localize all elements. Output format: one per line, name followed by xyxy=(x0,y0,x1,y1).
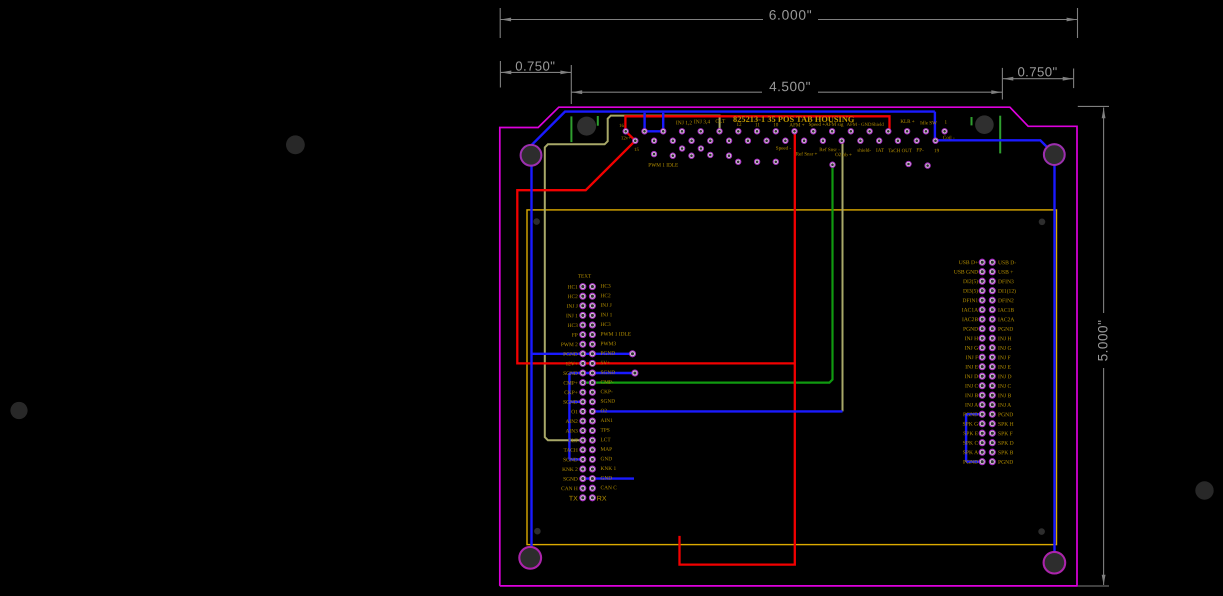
svg-text:INJ 3,4: INJ 3,4 xyxy=(694,119,710,125)
svg-text:SPK A: SPK A xyxy=(963,450,978,456)
svg-text:PWM3: PWM3 xyxy=(600,341,616,347)
svg-text:CAN C: CAN C xyxy=(600,485,617,491)
svg-text:CMP-: CMP- xyxy=(600,380,613,386)
svg-text:DFIN1: DFIN1 xyxy=(962,298,978,304)
svg-text:AIN1: AIN1 xyxy=(600,418,613,424)
svg-text:4.500": 4.500" xyxy=(769,79,811,94)
svg-text:12V+: 12V+ xyxy=(565,361,577,367)
svg-text:PGND: PGND xyxy=(998,460,1013,466)
svg-text:IAC1B: IAC1B xyxy=(998,308,1014,314)
svg-text:CKP+: CKP+ xyxy=(564,390,578,396)
svg-text:MAP: MAP xyxy=(600,447,612,453)
svg-text:LCT: LCT xyxy=(600,437,611,443)
svg-text:AIN3: AIN3 xyxy=(566,429,579,435)
svg-text:TX: TX xyxy=(569,496,578,503)
svg-text:TaCH OUT: TaCH OUT xyxy=(888,148,913,154)
svg-text:PGND: PGND xyxy=(963,412,978,418)
svg-text:KLR +: KLR + xyxy=(900,119,914,125)
svg-text:PGND: PGND xyxy=(600,351,615,357)
svg-text:10: 10 xyxy=(773,122,779,128)
svg-text:HC1: HC1 xyxy=(568,285,578,291)
svg-text:INJ C: INJ C xyxy=(998,384,1011,390)
svg-text:SGND: SGND xyxy=(600,399,615,405)
svg-text:SGND: SGND xyxy=(563,457,578,463)
svg-text:INJ D: INJ D xyxy=(965,374,979,380)
svg-text:DFIN3: DFIN3 xyxy=(998,279,1014,285)
svg-text:INJ G: INJ G xyxy=(965,346,979,352)
svg-text:11: 11 xyxy=(755,122,760,128)
svg-text:SGND: SGND xyxy=(563,400,578,406)
svg-text:PGND: PGND xyxy=(963,460,978,466)
svg-text:INJ E: INJ E xyxy=(998,365,1011,371)
svg-text:INJ 1: INJ 1 xyxy=(600,312,612,318)
svg-text:SPK H: SPK H xyxy=(998,422,1014,428)
svg-text:KNK 1: KNK 1 xyxy=(600,466,616,472)
svg-text:HC2: HC2 xyxy=(568,294,578,300)
svg-text:Coil -: Coil - xyxy=(943,135,955,141)
svg-text:16: 16 xyxy=(619,124,624,129)
svg-text:SGND: SGND xyxy=(600,370,615,376)
svg-text:SPK E: SPK E xyxy=(963,431,979,437)
svg-text:INJ J: INJ J xyxy=(600,303,611,309)
svg-text:SPK G: SPK G xyxy=(962,422,978,428)
svg-text:AFM +: AFM + xyxy=(789,122,804,128)
svg-text:INJ H: INJ H xyxy=(998,336,1012,342)
svg-text:HC2: HC2 xyxy=(600,293,610,299)
svg-text:SPK C: SPK C xyxy=(963,441,979,447)
svg-text:PGND: PGND xyxy=(963,327,978,333)
svg-text:SPK D: SPK D xyxy=(998,441,1014,447)
svg-text:Speed -: Speed - xyxy=(776,146,792,152)
svg-text:INJ A: INJ A xyxy=(965,403,978,409)
svg-text:PWM 1 IDLE: PWM 1 IDLE xyxy=(648,163,678,169)
svg-text:INJ A: INJ A xyxy=(998,403,1011,409)
svg-text:DI3(5): DI3(5) xyxy=(963,288,978,295)
svg-text:USB GND: USB GND xyxy=(954,270,978,276)
svg-text:PGND: PGND xyxy=(998,327,1013,333)
svg-text:INJ C: INJ C xyxy=(965,384,978,390)
svg-text:6.000": 6.000" xyxy=(769,8,813,23)
svg-text:PGND: PGND xyxy=(998,412,1013,418)
svg-text:HC3: HC3 xyxy=(600,284,610,290)
svg-text:PWM 2: PWM 2 xyxy=(561,342,578,348)
svg-text:Idle SW: Idle SW xyxy=(920,120,937,126)
svg-text:15: 15 xyxy=(634,148,639,153)
svg-text:HC3: HC3 xyxy=(600,322,610,328)
svg-text:AFM - GNDShield: AFM - GNDShield xyxy=(847,123,885,128)
svg-text:SGND: SGND xyxy=(563,371,578,377)
svg-text:CLT: CLT xyxy=(568,438,578,444)
svg-text:AIN2: AIN2 xyxy=(566,419,579,425)
svg-text:INJ E: INJ E xyxy=(965,365,978,371)
svg-text:INJ G: INJ G xyxy=(998,346,1012,352)
svg-text:5V+: 5V+ xyxy=(600,360,610,366)
svg-text:USB D+: USB D+ xyxy=(959,260,978,266)
svg-text:Ref Snsr +: Ref Snsr + xyxy=(796,150,818,157)
svg-text:INJ H: INJ H xyxy=(965,336,979,342)
svg-text:12v+: 12v+ xyxy=(621,136,631,141)
svg-text:TACH: TACH xyxy=(564,448,578,454)
svg-text:USB +: USB + xyxy=(998,270,1013,276)
svg-text:TEXT: TEXT xyxy=(578,274,592,280)
svg-text:INJ D: INJ D xyxy=(998,374,1012,380)
svg-text:0.750": 0.750" xyxy=(1017,64,1057,79)
svg-text:GND: GND xyxy=(600,456,612,462)
svg-text:GND: GND xyxy=(600,476,612,482)
svg-text:INJ 1: INJ 1 xyxy=(566,313,578,319)
svg-text:O2: O2 xyxy=(600,408,607,414)
svg-text:SPK B: SPK B xyxy=(998,450,1014,456)
svg-text:INJ B: INJ B xyxy=(965,393,978,399)
svg-text:INJ F: INJ F xyxy=(966,355,979,361)
svg-text:IAC1A: IAC1A xyxy=(962,308,978,314)
svg-text:INJ F: INJ F xyxy=(998,355,1011,361)
svg-text:HC3: HC3 xyxy=(568,323,578,329)
svg-text:SGND: SGND xyxy=(563,477,578,483)
svg-text:IAT: IAT xyxy=(876,148,885,154)
svg-text:0.750": 0.750" xyxy=(515,59,555,74)
svg-text:RX: RX xyxy=(597,496,607,503)
svg-text:12: 12 xyxy=(736,122,742,128)
svg-text:Speed +AFM sig: Speed +AFM sig xyxy=(809,122,844,128)
svg-text:DI1(12): DI1(12) xyxy=(998,288,1016,295)
svg-text:CAN H: CAN H xyxy=(561,486,578,492)
svg-text:PWM 1 IDLE: PWM 1 IDLE xyxy=(600,332,631,338)
svg-text:5.000": 5.000" xyxy=(1096,320,1111,362)
svg-text:KNK 2: KNK 2 xyxy=(562,467,578,473)
svg-text:SPK F: SPK F xyxy=(998,431,1013,437)
svg-text:shield-: shield- xyxy=(857,148,871,154)
svg-text:INJ J: INJ J xyxy=(567,304,578,310)
svg-text:IAC2B: IAC2B xyxy=(962,317,978,323)
svg-text:IAC2A: IAC2A xyxy=(998,317,1014,323)
svg-text:19: 19 xyxy=(934,148,940,154)
svg-text:PGND: PGND xyxy=(563,352,578,358)
svg-text:CLT: CLT xyxy=(715,119,726,125)
svg-text:INJ B: INJ B xyxy=(998,393,1011,399)
svg-text:CMP+: CMP+ xyxy=(563,381,577,387)
svg-text:FP-: FP- xyxy=(916,147,924,153)
svg-text:INJ 1,2: INJ 1,2 xyxy=(676,120,692,126)
svg-text:FP: FP xyxy=(572,333,578,339)
svg-text:O1: O1 xyxy=(571,409,578,415)
svg-text:TPS: TPS xyxy=(600,428,609,434)
svg-text:O2 nb +: O2 nb + xyxy=(835,152,852,158)
svg-text:CKP-: CKP- xyxy=(600,389,612,395)
svg-text:USB D-: USB D- xyxy=(998,260,1016,266)
svg-text:DI2(5): DI2(5) xyxy=(963,278,978,285)
svg-text:DFIN2: DFIN2 xyxy=(998,298,1014,304)
